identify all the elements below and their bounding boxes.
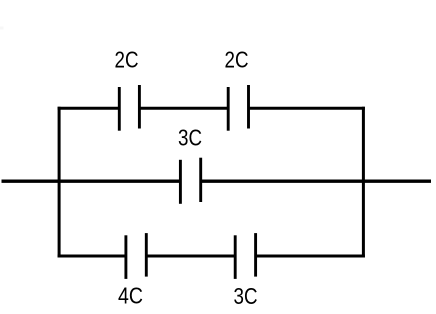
svg-text:4C: 4C bbox=[118, 283, 143, 309]
svg-text:2C: 2C bbox=[115, 47, 139, 73]
svg-text:3C: 3C bbox=[178, 125, 202, 151]
svg-text:3C: 3C bbox=[234, 283, 258, 309]
svg-text:2C: 2C bbox=[225, 47, 249, 73]
